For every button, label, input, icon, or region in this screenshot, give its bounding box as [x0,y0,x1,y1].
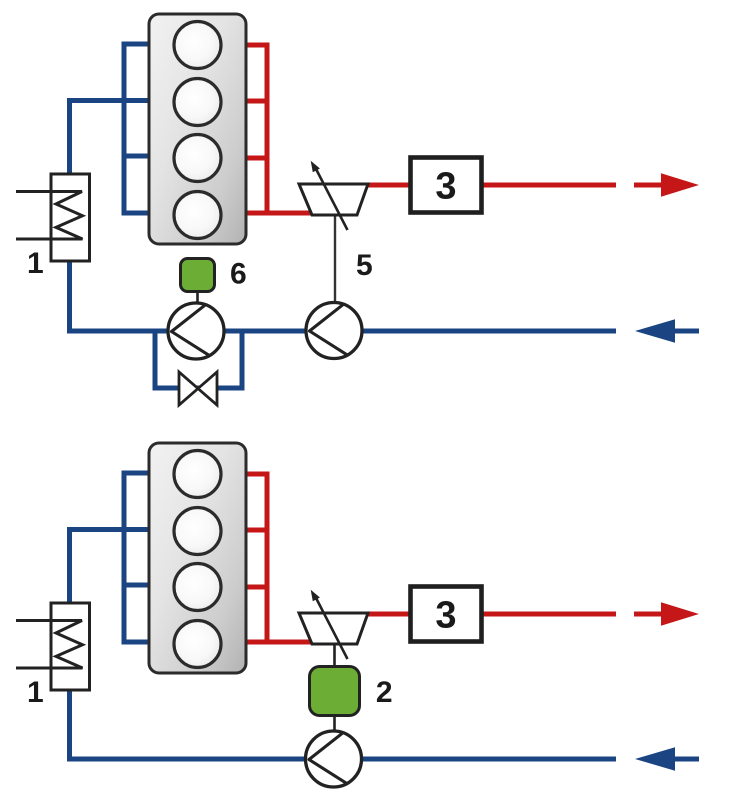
svg-text:1: 1 [27,676,44,709]
svg-text:1: 1 [27,247,44,280]
svg-text:6: 6 [230,258,247,291]
svg-text:2: 2 [376,676,393,709]
svg-text:5: 5 [356,249,373,282]
